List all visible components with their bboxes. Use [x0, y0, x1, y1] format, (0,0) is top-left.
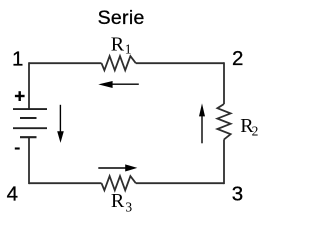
svg-text:1: 1 — [12, 48, 23, 71]
svg-text:2: 2 — [252, 123, 259, 138]
wire left-upper (node1 to battery) — [28, 62, 30, 109]
current arrow left (top, below R1) — [111, 83, 139, 85]
svg-text:R: R — [111, 190, 125, 212]
resistor R1 — [102, 56, 136, 70]
svg-text:3: 3 — [125, 199, 132, 213]
svg-text:2: 2 — [232, 47, 243, 70]
resistor R2 — [217, 104, 230, 139]
battery B1 plate long lower — [13, 127, 47, 129]
svg-text:3: 3 — [232, 182, 243, 205]
svg-text:1: 1 — [125, 42, 132, 57]
battery B1 plate short upper — [20, 117, 37, 119]
wire top-right — [136, 62, 224, 64]
battery minus sign — [15, 147, 20, 149]
battery B1 plate short bottom (-) — [20, 136, 37, 138]
svg-text:Serie: Serie — [98, 7, 145, 29]
wire bottom-left — [29, 182, 102, 184]
resistor R3 — [102, 176, 136, 190]
current arrow right (above R3) — [98, 167, 126, 169]
current arrow up (left of R2) — [201, 115, 203, 143]
wire right-lower (R2 to node3) — [223, 139, 225, 184]
current arrow down (right of battery) — [59, 105, 61, 132]
wire left-lower (battery to node4) — [28, 137, 30, 184]
battery plus sign — [15, 95, 25, 97]
wire right-upper (node2 to R2) — [223, 62, 225, 104]
svg-text:R: R — [111, 33, 125, 55]
wire top-left — [29, 62, 102, 64]
battery B1 plate long top (+) — [13, 108, 47, 110]
wire bottom-right — [136, 182, 224, 184]
svg-text:4: 4 — [7, 183, 18, 206]
